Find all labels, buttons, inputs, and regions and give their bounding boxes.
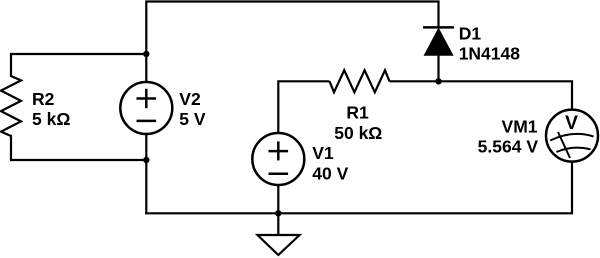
wire: R1 right through D1 junction to VM1 top lead (390, 81, 573, 110)
resistor R2 (1, 54, 21, 160)
svg-text:VM1: VM1 (502, 116, 538, 136)
svg-text:5.564 V: 5.564 V (478, 137, 539, 157)
wire: bottom rail (146, 212, 572, 214)
junction at V2 top (143, 51, 149, 57)
svg-text:D1: D1 (459, 24, 482, 44)
svg-text:50 kΩ: 50 kΩ (334, 123, 382, 143)
svg-text:V: V (565, 112, 578, 134)
resistor R1 (330, 70, 390, 92)
voltage source V1 (252, 133, 304, 185)
junction at V2 bottom (143, 157, 149, 163)
svg-text:V2: V2 (179, 89, 201, 109)
svg-text:R1: R1 (346, 102, 369, 122)
diode D1 triangle (424, 29, 452, 56)
wire: V1 bottom lead (277, 185, 279, 213)
wire: top rail from V2 branch to D1 cathode (146, 2, 438, 84)
voltmeter VM1 (546, 110, 598, 162)
junction at D1 anode (435, 78, 441, 84)
svg-text:V1: V1 (312, 143, 334, 163)
wire: V2 bottom lead down to bottom rail corner (145, 134, 147, 213)
svg-text:R2: R2 (32, 89, 55, 109)
svg-text:1N4148: 1N4148 (459, 44, 521, 64)
wire: R2 bottom to V2 bottom junction (11, 159, 146, 161)
wire: ground stub (277, 213, 279, 235)
wire: R2 top to V2 top junction (11, 53, 146, 55)
voltage source V2 (120, 82, 172, 134)
diode D1 cathode bar (423, 26, 454, 29)
svg-text:40 V: 40 V (312, 163, 348, 183)
svg-text:5 kΩ: 5 kΩ (32, 109, 70, 129)
junction at V1 bottom / ground (275, 210, 281, 216)
svg-text:5 V: 5 V (179, 109, 206, 129)
ground (258, 235, 300, 255)
wire: V1 top lead to R1 left (278, 81, 329, 133)
diode D1 anode lead (437, 55, 439, 81)
wire: VM1 bottom lead (571, 161, 573, 213)
